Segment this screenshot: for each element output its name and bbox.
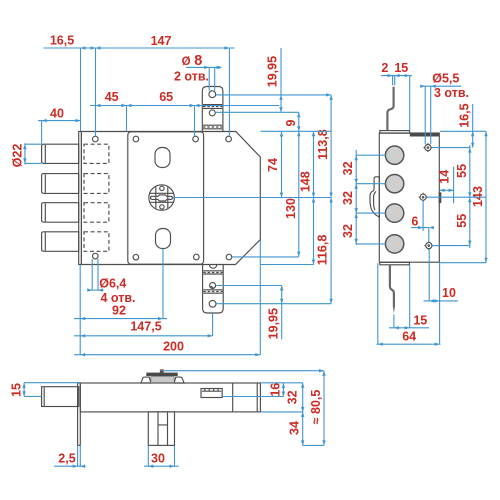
leader side hole top (432, 147, 470, 149)
svg-text:15: 15 (9, 383, 23, 397)
leader body bottom edge right (261, 264, 314, 266)
body mounting hole top-right (Ø6,4) (226, 136, 232, 142)
svg-text:32: 32 (341, 191, 355, 205)
svg-text:143: 143 (471, 186, 485, 207)
dim Ø22 bolt diameter (24, 143, 26, 164)
svg-text:40: 40 (50, 107, 64, 121)
side bolt circle 1 (385, 146, 403, 164)
top tab knurl band 1 (203, 104, 222, 106)
svg-text:147,5: 147,5 (130, 319, 161, 333)
bottom hump dark bar (146, 373, 177, 376)
dim 14 (440, 189, 454, 191)
leader bottom tab middle hole (216, 285, 282, 287)
dim 64 (377, 343, 441, 345)
dim 6 (411, 227, 429, 229)
svg-text:16: 16 (268, 383, 282, 397)
svg-text:Ø6,4: Ø6,4 (99, 277, 126, 291)
leader latch (222, 396, 283, 398)
dim 148 (313, 131, 315, 264)
dim 19,95 top (280, 48, 282, 112)
svg-text:116,8: 116,8 (316, 235, 330, 266)
svg-text:65: 65 (159, 90, 173, 104)
svg-text:16,5: 16,5 (458, 103, 472, 127)
leader body top edge right (261, 130, 332, 132)
ext bottom tab hole (212, 313, 214, 336)
dim 9 and 130 column (298, 112, 300, 256)
key slot (151, 195, 173, 201)
leader mechanism centre (173, 197, 332, 199)
dim 16 knob height (282, 383, 284, 396)
front body plate edge strip (79, 132, 82, 265)
bottom tab knurl band 1 (203, 270, 222, 272)
front bolt 1 hidden outline (dashed) (84, 144, 109, 163)
svg-text:16,5: 16,5 (50, 34, 74, 48)
dim Ø8 tab hole (186, 66, 222, 68)
bottom hump gray zone (151, 377, 174, 383)
bottom tab middle hole (210, 283, 216, 289)
bottom hump left foot (141, 377, 151, 383)
faceplate screw hole bottom-left (133, 254, 139, 260)
dim 10 (424, 300, 459, 302)
svg-text:≈ 80,5: ≈ 80,5 (309, 390, 323, 425)
svg-text:19,95: 19,95 (267, 308, 281, 339)
side faceplate strip bottom (390, 265, 394, 307)
svg-text:9: 9 (284, 119, 298, 126)
svg-text:2,5: 2,5 (58, 451, 75, 465)
side cylinder boss on left edge (370, 177, 379, 217)
svg-text:113,8: 113,8 (316, 129, 330, 160)
top tab knurl band 2 (203, 124, 222, 126)
ext body right corner (259, 240, 261, 355)
top tab hole (Ø8) (209, 91, 216, 98)
upper keyhole oval (155, 148, 170, 168)
svg-text:55: 55 (455, 164, 469, 178)
front bolt 3 (42, 203, 79, 223)
leader bottom body top edge (261, 382, 303, 384)
svg-text:19,95: 19,95 (265, 56, 279, 87)
leader body screw bottom-right (232, 256, 299, 258)
side faceplate top cap (380, 131, 410, 134)
svg-text:Ø 8: Ø 8 (182, 53, 203, 69)
dim 55 / 55 column (469, 145, 471, 248)
front bolt 4 (42, 232, 79, 252)
side faceplate strip top (Z-bend) (387, 87, 393, 131)
side faceplate bottom cap (380, 262, 410, 264)
leader hump knob (164, 370, 324, 372)
front bolt 2 (42, 174, 79, 194)
dim Ø6,4 mounting hole (91, 259, 93, 290)
svg-text:32: 32 (286, 390, 300, 404)
dim 15 bottom side (389, 327, 429, 329)
leader side bolt 1 (356, 154, 385, 156)
top tab lower hole (209, 110, 215, 116)
bottom hump right foot (174, 377, 184, 383)
dim 147,5 (74, 335, 213, 337)
svg-text:147: 147 (151, 34, 172, 48)
svg-text:2: 2 (381, 61, 388, 75)
svg-text:6: 6 (411, 215, 418, 229)
dim 92 (74, 318, 167, 320)
side screw hole bottom (Ø5,5) (426, 243, 432, 249)
leader side bolt 3 (356, 212, 385, 214)
dim ≈80,5 overall (323, 371, 325, 446)
dim 30 cylinder housing (144, 465, 179, 467)
bottom cylinder housing (148, 412, 174, 446)
svg-text:15: 15 (394, 61, 408, 75)
dim 2,5 faceplate (54, 465, 85, 467)
side top wall (dark) (410, 133, 439, 136)
front faceplate (128, 132, 204, 264)
side view body (379, 133, 439, 262)
body mounting hole top-left (Ø6,4) (93, 136, 99, 142)
key mechanism small screw top (160, 186, 164, 190)
svg-text:32: 32 (341, 161, 355, 175)
bottom view bolt (42, 387, 79, 407)
svg-text:74: 74 (266, 158, 280, 172)
svg-text:Ø22: Ø22 (11, 144, 25, 168)
svg-text:130: 130 (284, 198, 298, 219)
faceplate screw hole bottom-right (194, 254, 200, 260)
front bolt 2 hidden outline (dashed) (84, 174, 109, 194)
bottom tab arc notch (210, 265, 217, 269)
dim 143 (485, 131, 487, 262)
leader bottom tab hole (216, 303, 331, 305)
bottom view faceplate strip (2,5 thick) (78, 383, 81, 445)
body mounting hole bottom-left (Ø6,4) (93, 253, 99, 259)
leader side hole bottom (432, 245, 470, 247)
bottom tab hole (Ø8) (209, 300, 216, 307)
dim 2 / 15 top (381, 75, 412, 77)
dim 45 / 65 row (90, 105, 279, 107)
key mechanism outer circle (149, 185, 175, 211)
svg-text:Ø5,5: Ø5,5 (432, 72, 459, 86)
dim 74 (281, 132, 283, 198)
side bolt circle 2 (385, 175, 403, 193)
svg-text:55: 55 (455, 214, 469, 228)
dim 15 bolt thickness (23, 383, 25, 397)
leader bottom body bottom edge (261, 411, 303, 413)
front bolt 4 hidden outline (dashed) (84, 232, 109, 252)
bottom tab knurl band 2 (203, 289, 222, 291)
side bolt circle 4 (385, 235, 403, 253)
top fixing tab (202, 87, 223, 132)
leader tab hole 2 (216, 111, 299, 113)
dim 32 / 34 column (302, 383, 304, 446)
leader side body top (440, 130, 486, 132)
key mechanism small screw bottom (160, 205, 164, 209)
dim 40 bolt length (38, 120, 81, 122)
side screw hole top (Ø5,5) (425, 145, 431, 151)
svg-text:30: 30 (151, 451, 165, 465)
key mechanism vertical band (156, 186, 168, 209)
leader side bolt 4 (356, 243, 385, 245)
lower keyhole oval (156, 229, 171, 249)
faceplate screw hole top-left (133, 136, 139, 142)
ext body left lower (79, 265, 81, 355)
svg-text:15: 15 (413, 313, 427, 327)
svg-text:14: 14 (437, 170, 451, 184)
leader side hole middle (427, 196, 486, 198)
svg-text:32: 32 (341, 224, 355, 238)
front bolt 3 hidden outline (dashed) (84, 203, 109, 223)
svg-text:148: 148 (299, 171, 313, 192)
svg-text:45: 45 (105, 90, 119, 104)
svg-text:34: 34 (288, 421, 302, 435)
front bolt 1 (42, 144, 79, 163)
bottom hump knob (160, 369, 164, 372)
leader lower oval (162, 249, 164, 319)
bottom view body right end inner line (256, 383, 258, 412)
faceplate screw hole top-right (193, 136, 199, 142)
side bolt circle 3 (385, 204, 403, 222)
body mounting hole bottom-right (Ø6,4) (226, 254, 232, 260)
svg-text:64: 64 (402, 330, 416, 344)
bottom latch detail (201, 389, 222, 398)
bottom view divider line (232, 383, 234, 412)
svg-text:3 отв.: 3 отв. (434, 86, 469, 100)
key mechanism chords (150, 193, 174, 202)
side screw hole middle (Ø5,5) (420, 194, 426, 200)
svg-text:4 отв.: 4 отв. (100, 291, 135, 305)
leader tab hole 1 (216, 94, 331, 96)
dim Ø5,5 (421, 85, 461, 87)
bottom fixing tab (203, 265, 224, 313)
svg-text:92: 92 (112, 304, 126, 318)
side latch pin on right edge (439, 192, 442, 203)
dim 16,5 / 147 top row (43, 47, 234, 49)
dim 200 (74, 354, 260, 356)
front lock body outline (81, 132, 260, 265)
dim 19,95 bottom (281, 286, 283, 340)
svg-text:10: 10 (442, 286, 456, 300)
dim 113,8 / 116,8 column (330, 95, 332, 304)
dim 16,5 right (472, 104, 474, 148)
leader side body bottom (440, 262, 486, 264)
svg-text:2 отв.: 2 отв. (174, 69, 209, 83)
svg-text:200: 200 (163, 340, 184, 354)
leader side bolt 2 (356, 183, 385, 185)
dim 32 x3 column (355, 150, 357, 245)
bottom view body (80, 383, 260, 412)
